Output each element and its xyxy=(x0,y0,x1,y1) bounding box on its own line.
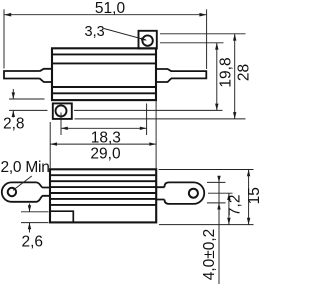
svg-text:51,0: 51,0 xyxy=(95,0,126,17)
arrow 2,6 up xyxy=(28,223,31,230)
body fin line xyxy=(52,62,156,64)
dim 28 line xyxy=(234,34,236,119)
svg-text:15: 15 xyxy=(246,187,263,204)
extension ear hole B xyxy=(160,42,224,44)
arrow 19,8 down xyxy=(215,104,218,111)
fin line xyxy=(50,198,156,200)
fin line xyxy=(50,180,156,182)
svg-text:18,3: 18,3 xyxy=(91,129,121,146)
svg-text:19,8: 19,8 xyxy=(218,57,235,87)
arrow 2,8 up xyxy=(12,110,15,117)
left lead crimp xyxy=(40,69,52,82)
dim 2,6 arrow lines xyxy=(29,204,31,233)
shared extension bottom xyxy=(159,224,254,226)
svg-text:2,8: 2,8 xyxy=(3,115,25,132)
dim 4,0 extension lower xyxy=(207,202,226,204)
extension ear bottom D xyxy=(75,118,246,120)
dim 18,3 extension right xyxy=(146,104,148,136)
resistor body top view xyxy=(52,48,156,100)
extension ear top A xyxy=(160,33,246,35)
right lead wire xyxy=(171,71,206,78)
svg-text:2,0 Min: 2,0 Min xyxy=(1,159,50,176)
arrow 19,8 up xyxy=(215,43,218,50)
dim 29,0 extension left xyxy=(49,122,51,169)
svg-text:29,0: 29,0 xyxy=(90,145,121,162)
arrow 4,0 up xyxy=(217,203,220,210)
arrow 18,3 left xyxy=(61,127,68,130)
dim 2,8 arrow lines xyxy=(12,89,14,118)
dim 51,0 extension right xyxy=(206,9,208,69)
dim 29,0 line xyxy=(50,143,156,145)
dim 2,6 extension upper xyxy=(21,211,49,213)
leader 3,3 xyxy=(104,29,146,41)
extension lower hole C xyxy=(74,109,223,111)
mounting hole top right xyxy=(142,35,152,45)
body fin line xyxy=(52,92,156,94)
right tab neck xyxy=(156,187,164,199)
right tab hole xyxy=(189,189,198,198)
fin line xyxy=(50,186,156,188)
svg-text:28: 28 xyxy=(236,64,253,81)
svg-text:7,2: 7,2 xyxy=(227,195,244,217)
dim 18,3 line xyxy=(61,127,147,129)
dim 15 line xyxy=(248,170,250,225)
resistor body bottom view xyxy=(50,169,156,222)
dim 4,0 extension upper xyxy=(207,181,226,183)
dim 51,0 extension left xyxy=(3,9,5,68)
svg-text:4,0±0,2: 4,0±0,2 xyxy=(201,229,218,281)
left lead wire xyxy=(4,71,40,79)
arrow 7,2 down xyxy=(227,218,230,225)
arrow 29,0 right xyxy=(149,142,156,145)
mounting hole bottom left xyxy=(56,105,67,116)
dim 2,8 extension upper xyxy=(9,98,45,100)
mounting ear top right xyxy=(139,31,157,49)
dim 2,8 extension lower xyxy=(9,109,48,111)
mounting ear bottom left xyxy=(53,103,72,119)
dim 19,8 line xyxy=(216,43,218,111)
arrow leader 3,3 xyxy=(141,37,147,40)
arrow 15 down xyxy=(247,218,250,225)
arrow 18,3 right xyxy=(140,127,147,130)
leader 2,0 Min xyxy=(13,176,32,190)
left solder lug xyxy=(2,182,50,201)
body fin line xyxy=(52,86,156,88)
svg-text:3,3: 3,3 xyxy=(85,24,105,40)
right faston tab xyxy=(165,182,205,204)
arrow 29,0 left xyxy=(50,142,57,145)
dim 4,0 line xyxy=(218,177,220,284)
base notch xyxy=(50,211,73,222)
arrow 51,0 right xyxy=(199,13,206,17)
fin line xyxy=(50,192,156,194)
arrow 7,2 up xyxy=(227,193,230,200)
fin line xyxy=(50,204,156,206)
dim 15 extension top xyxy=(159,169,254,171)
arrow 2,8 down xyxy=(12,92,15,99)
dim 51,0 line xyxy=(4,14,207,16)
arrow 51,0 left xyxy=(4,13,11,17)
left lug hole xyxy=(8,188,16,196)
dim 2,6 extension lower xyxy=(21,222,49,224)
dim 18,3 extension left xyxy=(60,113,62,136)
fin line xyxy=(50,174,156,176)
dim 29,0 extension right xyxy=(155,101,157,169)
dim 7,2 line xyxy=(228,193,230,224)
dim 7,2 extension hole xyxy=(208,192,233,194)
arrow 15 up xyxy=(247,170,250,177)
arrow 28 down xyxy=(233,112,236,119)
body fin line xyxy=(52,53,156,55)
arrow 4,0 down xyxy=(217,176,220,183)
arrow 2,6 down xyxy=(28,205,31,212)
svg-text:2,6: 2,6 xyxy=(22,233,44,250)
arrow 28 up xyxy=(233,34,236,41)
right lead crimp xyxy=(156,69,171,82)
